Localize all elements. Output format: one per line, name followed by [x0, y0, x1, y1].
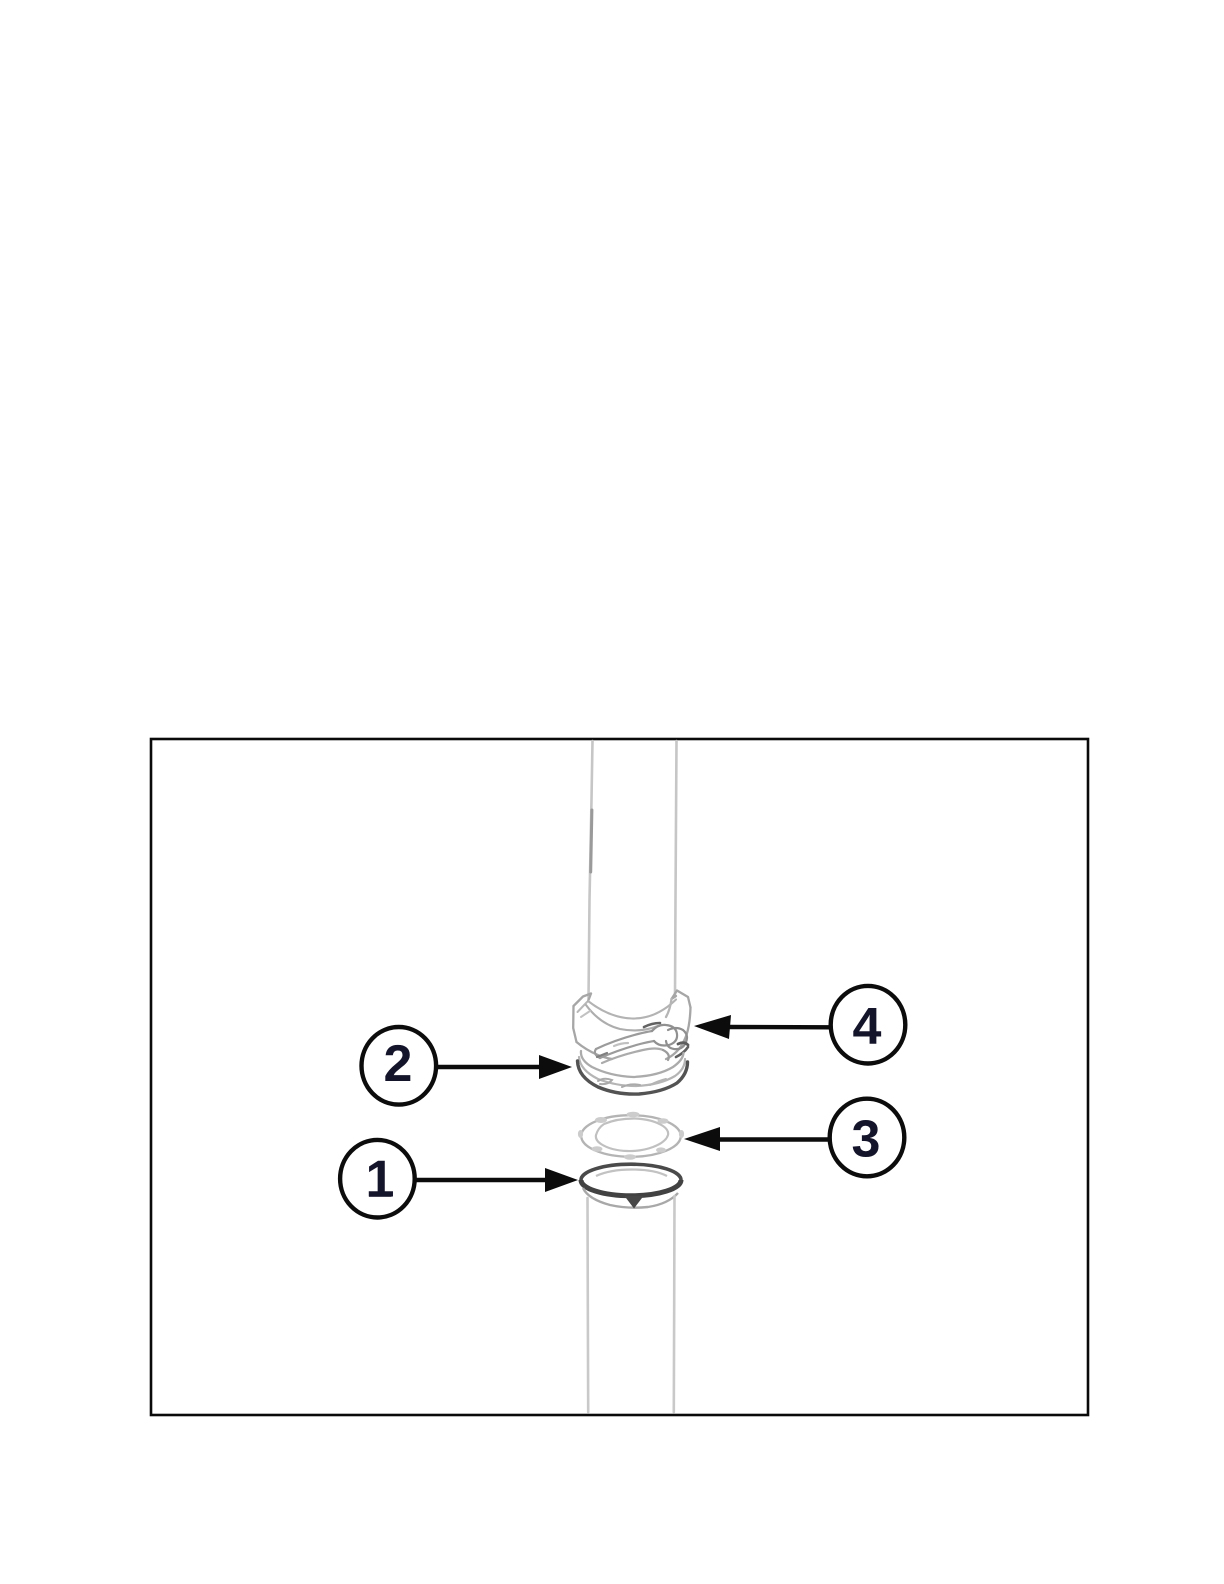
leader arrow 1	[415, 1168, 578, 1192]
callout circle 3	[830, 1099, 905, 1177]
callout circle 2	[362, 1027, 437, 1105]
svg-text:1: 1	[366, 1151, 395, 1209]
svg-text:2: 2	[384, 1035, 413, 1093]
callout circle 4	[831, 986, 906, 1064]
lower pipe flared rim (item 1)	[581, 1164, 681, 1208]
upper exhaust pipe	[589, 741, 677, 999]
svg-text:4: 4	[853, 998, 882, 1056]
gasket (item 3)	[578, 1112, 684, 1160]
svg-text:3: 3	[852, 1111, 881, 1169]
rim notch	[625, 1196, 644, 1209]
clamp band (item 4)	[573, 991, 690, 1060]
callout circle 1	[340, 1140, 415, 1218]
upper flange rim (item 2)	[578, 1051, 688, 1094]
leader arrow 3	[684, 1127, 830, 1151]
leader arrow 4	[694, 1015, 831, 1039]
lower exhaust pipe	[588, 1196, 675, 1412]
leader arrow 2	[436, 1055, 572, 1079]
clamp latch / t-bolt (item 4)	[595, 1023, 688, 1063]
